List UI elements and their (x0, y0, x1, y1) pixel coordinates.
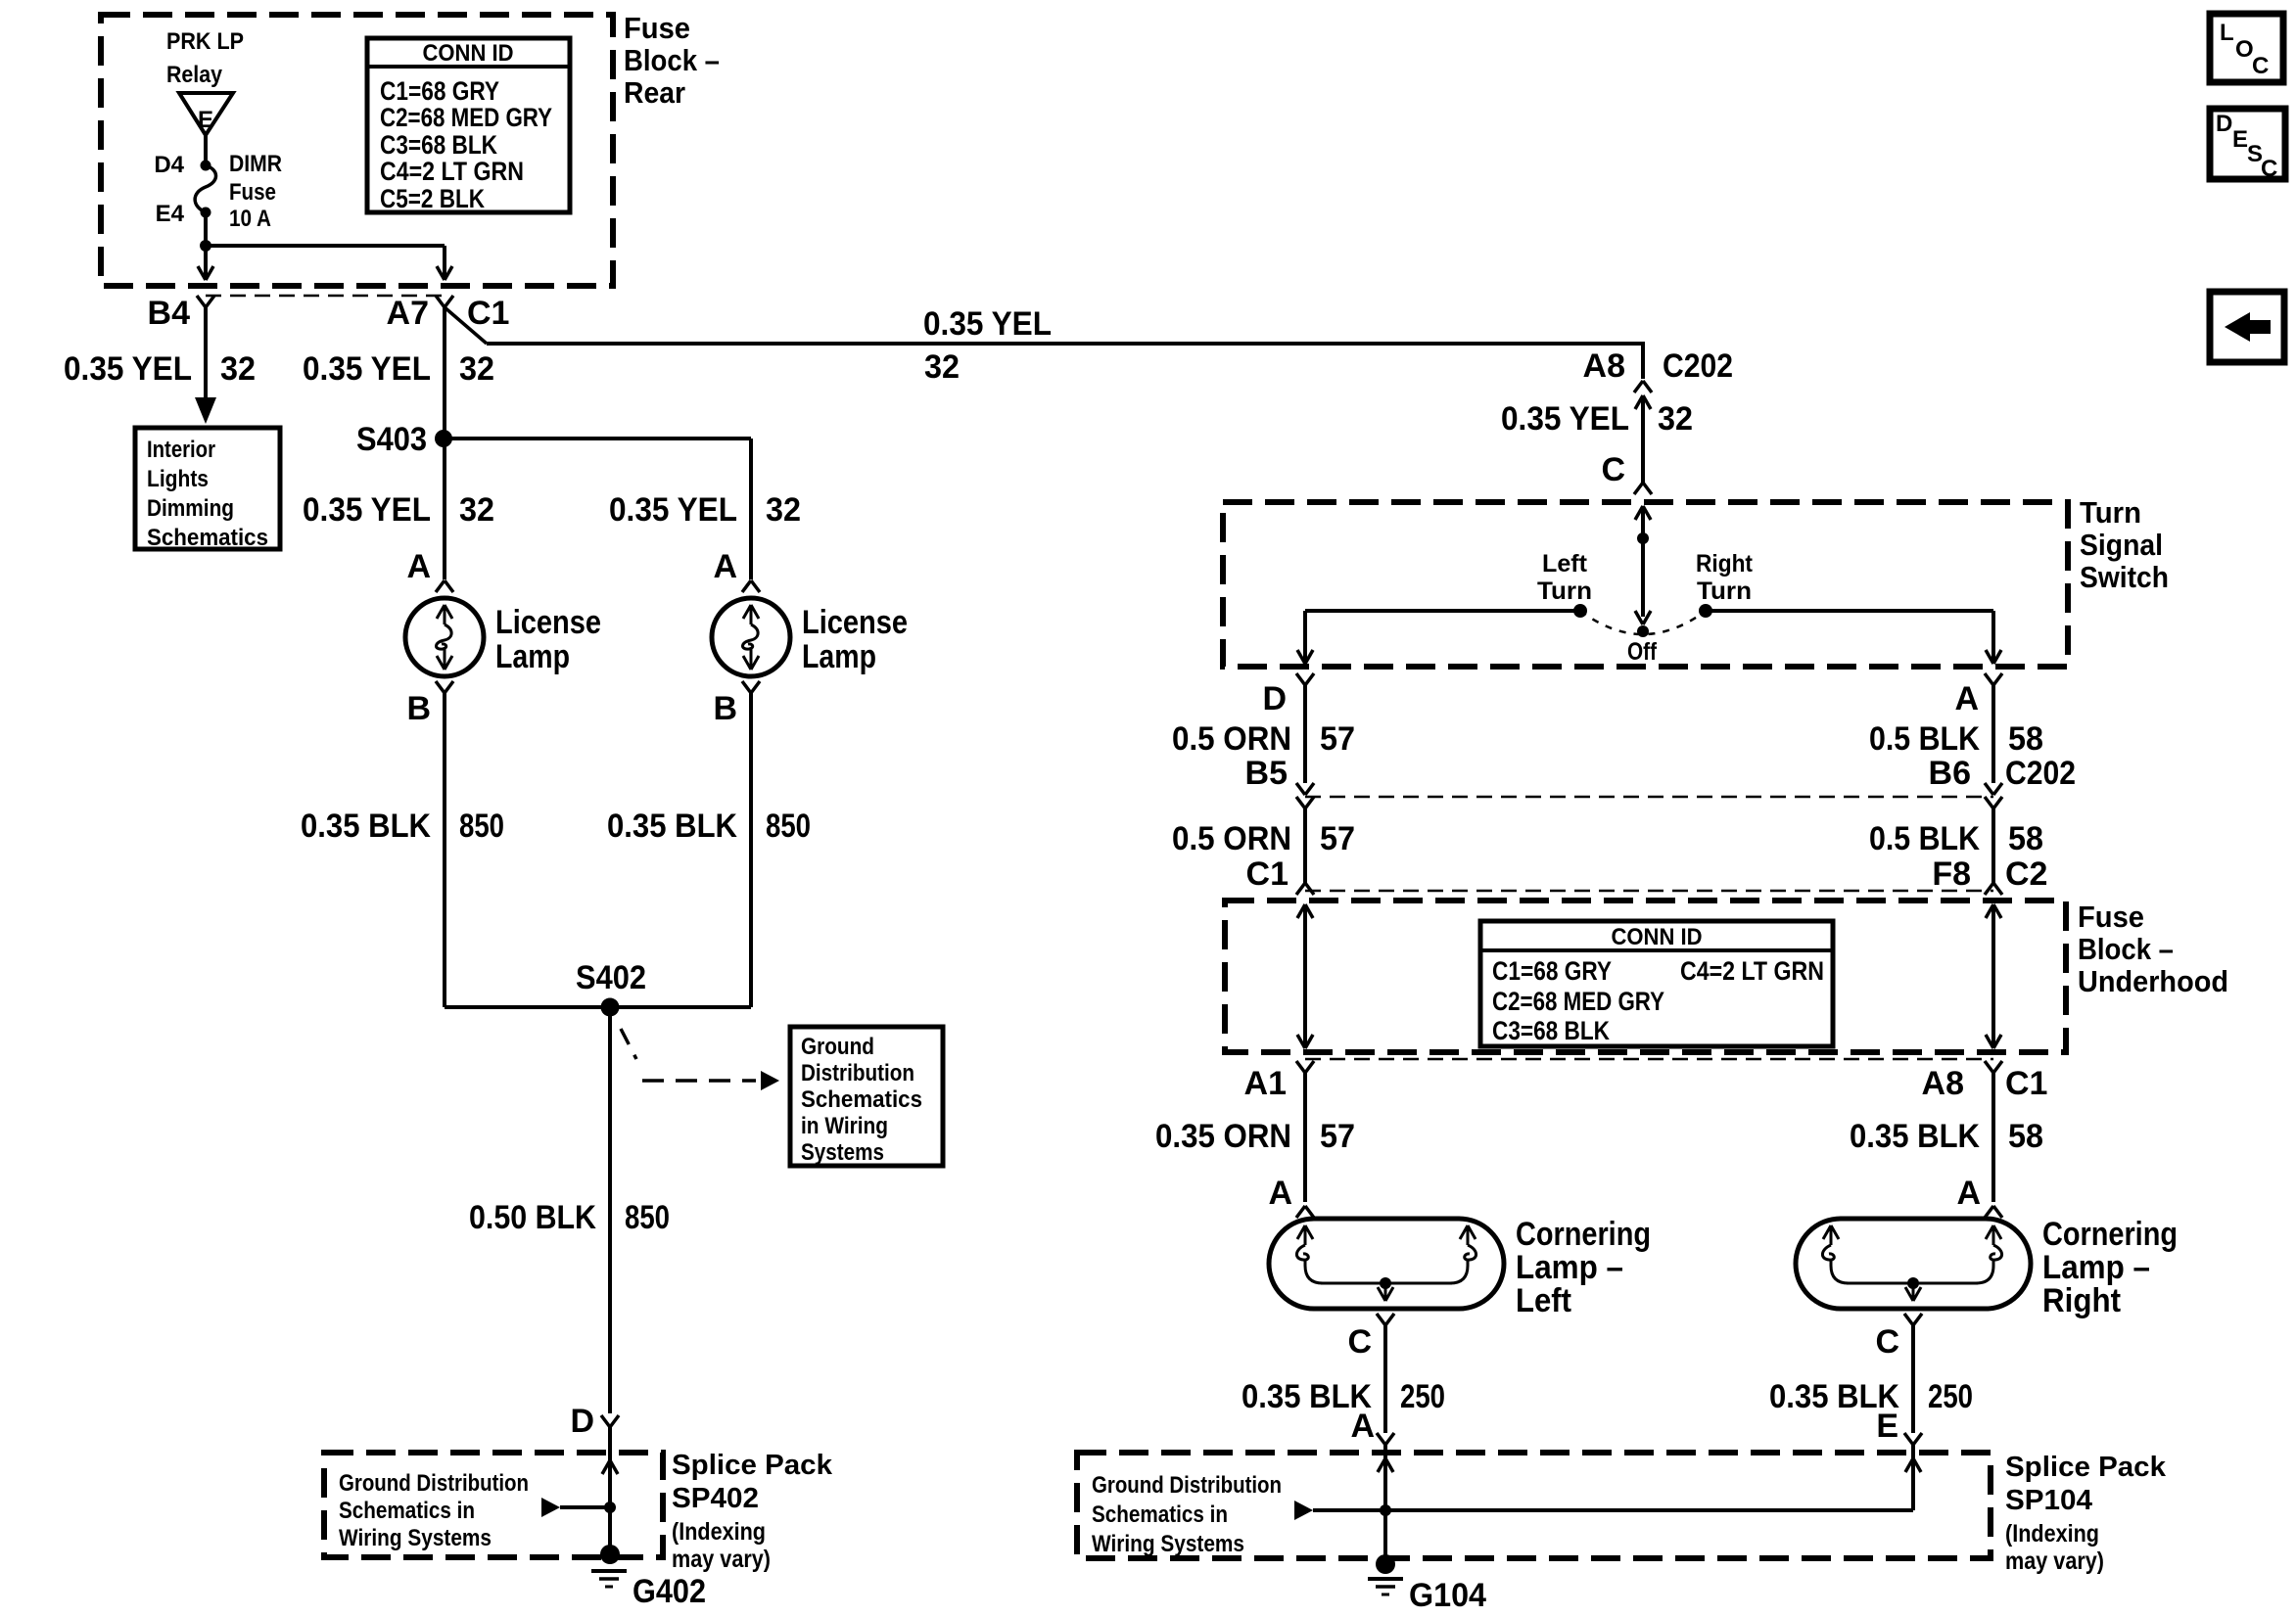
svg-text:57: 57 (1320, 820, 1355, 857)
ground G104 (1368, 1554, 1486, 1614)
connector C1 boundary (rear, dashed) (206, 295, 445, 298)
wire C202 to turn signal switch pin C (1635, 395, 1651, 483)
ground distribution text (SP104) (1092, 1472, 1282, 1557)
svg-text:E4: E4 (156, 201, 185, 227)
pin A8 / connector C1 (underhood out) (1922, 1061, 2048, 1102)
svg-text:0.35 BLK: 0.35 BLK (607, 808, 737, 845)
svg-text:G104: G104 (1409, 1577, 1486, 1614)
svg-text:C2=68 MED GRY: C2=68 MED GRY (380, 103, 552, 132)
ground G402 (591, 1545, 706, 1610)
pin C1 (underhood fuse block, left) (1246, 855, 1289, 893)
svg-text:B6: B6 (1929, 755, 1971, 792)
lamp Cornering Lamp - Left (1269, 1216, 1651, 1325)
svg-text:0.35 ORN: 0.35 ORN (1155, 1118, 1291, 1155)
svg-text:57: 57 (1320, 720, 1355, 758)
svg-text:Schematics: Schematics (801, 1086, 922, 1113)
svg-text:C202: C202 (2005, 755, 2076, 792)
svg-text:A1: A1 (1244, 1065, 1287, 1102)
interior lights dimming reference box (135, 428, 280, 551)
fuse DIMR 10 A (195, 151, 282, 232)
switch contact Left Turn (1537, 550, 1592, 618)
svg-text:D4: D4 (154, 152, 184, 178)
svg-text:250: 250 (1400, 1378, 1445, 1415)
LOC nav box (2210, 14, 2283, 82)
svg-text:0.35 YEL: 0.35 YEL (64, 350, 192, 388)
wire S402 to splice pack SP402 (601, 1007, 619, 1427)
svg-text:32: 32 (766, 491, 801, 529)
splice pack SP402 enclosure (324, 1453, 663, 1557)
svg-text:Left: Left (1542, 550, 1588, 577)
svg-text:Lamp: Lamp (495, 638, 570, 675)
connector C202 boundary (dashed) (1305, 796, 1993, 799)
label 0.5 ORN 57 (upper) (1172, 720, 1355, 758)
svg-text:CONN ID: CONN ID (1612, 924, 1703, 950)
svg-text:C1: C1 (2005, 1065, 2047, 1102)
label 0.35 YEL 32 (B4 wire) (64, 350, 256, 388)
svg-text:Interior: Interior (147, 437, 215, 463)
svg-text:E: E (1876, 1408, 1898, 1445)
fuse block underhood enclosure (1225, 901, 2066, 1052)
wire A7/C1 diagonal to top feed (445, 307, 487, 344)
wire S403 to left license lamp (443, 439, 446, 579)
turn signal switch enclosure (1223, 502, 2068, 667)
svg-text:C: C (1347, 1323, 1372, 1361)
svg-text:Wiring Systems: Wiring Systems (339, 1525, 492, 1551)
svg-text:F8: F8 (1932, 855, 1971, 893)
svg-text:(Indexing: (Indexing (672, 1518, 766, 1546)
svg-text:Switch: Switch (2080, 560, 2169, 594)
label 0.35 BLK 58 (1850, 1118, 2043, 1155)
ground distribution text (SP402) (339, 1470, 529, 1551)
label Splice Pack SP104 (2005, 1452, 2167, 1575)
wire B6 side to F8 (0.5 BLK 58) (1985, 797, 2002, 895)
svg-text:A8: A8 (1583, 347, 1625, 385)
svg-text:250: 250 (1928, 1378, 1973, 1415)
svg-text:C: C (2261, 156, 2277, 182)
pin C (left cornering lamp) (1347, 1323, 1372, 1361)
label 0.5 ORN 57 (lower) (1172, 820, 1355, 857)
svg-text:SP104: SP104 (2005, 1485, 2092, 1516)
pin D (SP402) (570, 1403, 594, 1440)
svg-text:D: D (2216, 111, 2232, 137)
wire A to B6 (0.5 BLK 58) (1985, 685, 2002, 795)
label Fuse Block - Underhood (2078, 900, 2228, 998)
pin A1 (1244, 1061, 1314, 1102)
wire A8 to right cornering lamp (0.35 BLK 58) (1985, 1073, 2002, 1218)
svg-text:G402: G402 (633, 1573, 706, 1610)
svg-text:0.5 ORN: 0.5 ORN (1172, 820, 1291, 857)
svg-text:0.35 YEL: 0.35 YEL (1501, 400, 1629, 438)
label 0.35 YEL 32 (top feed) (923, 305, 1052, 386)
svg-text:A7: A7 (387, 295, 429, 332)
svg-text:Turn: Turn (1537, 577, 1592, 605)
wire A1 to left cornering lamp (0.35 ORN 57) (1296, 1073, 1314, 1218)
pin C (right cornering lamp) (1875, 1323, 1899, 1361)
label Splice Pack SP402 (672, 1450, 833, 1573)
svg-text:C2=68 MED GRY: C2=68 MED GRY (1492, 987, 1664, 1016)
svg-text:0.50 BLK: 0.50 BLK (469, 1199, 596, 1236)
svg-text:C: C (2252, 53, 2269, 79)
svg-text:Ground Distribution: Ground Distribution (339, 1470, 529, 1497)
pin A (turn signal switch) (1954, 673, 2002, 717)
label 0.35 BLK 250 (left) (1242, 1378, 1445, 1415)
svg-text:C1: C1 (1246, 855, 1289, 893)
junction below fuse (200, 240, 211, 252)
svg-text:DIMR: DIMR (229, 151, 282, 177)
svg-text:Turn: Turn (2080, 495, 2141, 530)
wire left lamp B to S402 (443, 693, 446, 1007)
svg-text:32: 32 (220, 350, 256, 388)
svg-text:0.5 ORN: 0.5 ORN (1172, 720, 1291, 758)
svg-text:Cornering: Cornering (1516, 1216, 1651, 1253)
svg-text:B: B (713, 690, 737, 727)
svg-text:Wiring Systems: Wiring Systems (1092, 1531, 1244, 1557)
pin E (SP104) (1876, 1408, 1898, 1445)
svg-text:Relay: Relay (166, 62, 223, 88)
svg-text:License: License (802, 604, 908, 641)
lamp License Lamp (right) (712, 580, 908, 693)
svg-text:in Wiring: in Wiring (801, 1113, 888, 1139)
svg-text:(Indexing: (Indexing (2005, 1520, 2099, 1548)
svg-text:C4=2 LT GRN: C4=2 LT GRN (380, 157, 524, 186)
svg-text:License: License (495, 604, 601, 641)
wire right lamp C to SP104 pin E (0.35 BLK 250) (1904, 1325, 1922, 1445)
svg-text:Fuse: Fuse (2078, 900, 2144, 934)
svg-text:0.35 YEL: 0.35 YEL (609, 491, 737, 529)
svg-text:Rear: Rear (624, 75, 685, 110)
svg-text:0.35 YEL: 0.35 YEL (923, 305, 1052, 343)
node D4 (154, 152, 211, 178)
svg-text:Block –: Block – (2078, 932, 2174, 966)
svg-text:Underhood: Underhood (2078, 964, 2228, 998)
connector C1 boundary below underhood box (dashed) (1305, 1058, 1993, 1061)
wire relay E to D4 (204, 135, 208, 165)
svg-text:L: L (2220, 20, 2234, 46)
wire S403 to right license lamp branch (445, 439, 751, 579)
svg-text:0.35 BLK: 0.35 BLK (301, 808, 431, 845)
wire junction to B4 exit arrow (198, 246, 213, 280)
svg-text:Lights: Lights (147, 466, 209, 492)
svg-text:58: 58 (2008, 1118, 2043, 1155)
svg-text:C1: C1 (467, 295, 509, 332)
svg-text:A: A (713, 548, 737, 585)
pin A (right cornering lamp) (1956, 1175, 1981, 1212)
pin A (left license lamp) (406, 548, 431, 585)
svg-text:32: 32 (459, 350, 494, 388)
label 0.35 YEL 32 (A7 wire) (303, 350, 494, 388)
svg-text:850: 850 (766, 808, 811, 845)
svg-text:10 A: 10 A (229, 206, 271, 232)
svg-text:A: A (1956, 1175, 1981, 1212)
svg-text:0.5 BLK: 0.5 BLK (1869, 820, 1980, 857)
relay PRK LP (166, 28, 244, 135)
label 0.35 YEL 32 (right lamp wire) (609, 491, 801, 529)
label 0.35 YEL 32 (C202 wire) (1501, 400, 1693, 438)
svg-text:A: A (1954, 680, 1979, 717)
svg-text:C5=2 BLK: C5=2 BLK (380, 184, 485, 213)
svg-text:Turn: Turn (1697, 577, 1752, 605)
wire through fuse block underhood (left) (1297, 904, 1313, 1048)
svg-text:Left: Left (1516, 1282, 1571, 1319)
CONN ID table (underhood) (1480, 921, 1833, 1046)
back arrow nav box (2210, 292, 2284, 362)
label 0.35 BLK 850 (left) (301, 808, 504, 845)
ground distribution schematics reference box (S402) (790, 1027, 943, 1166)
svg-text:C1=68 GRY: C1=68 GRY (1492, 956, 1612, 986)
switch position Off (1627, 625, 1658, 666)
svg-text:Dimming: Dimming (147, 495, 234, 522)
svg-text:SP402: SP402 (672, 1483, 759, 1514)
switch throw arc (dashed) (1580, 611, 1706, 634)
svg-text:0.5 BLK: 0.5 BLK (1869, 720, 1980, 758)
pin A (right license lamp) (713, 548, 737, 585)
wire E into SP104 (up arrow) and splice bar (1313, 1445, 1921, 1510)
pin A (SP104) (1350, 1408, 1375, 1445)
wire top feed to A8 (0.35 YEL 32) (487, 342, 1643, 379)
wire into SP402 with up arrow (602, 1427, 618, 1554)
svg-text:Lamp: Lamp (802, 638, 876, 675)
svg-text:A: A (406, 548, 431, 585)
lamp License Lamp (left) (405, 580, 601, 693)
wire E4 down to junction (204, 212, 208, 246)
splice pack SP104 enclosure (1077, 1453, 1991, 1558)
label Fuse Block - Rear (624, 11, 720, 110)
label 0.35 ORN 57 (1155, 1118, 1355, 1155)
svg-text:Systems: Systems (801, 1139, 884, 1166)
svg-text:Schematics in: Schematics in (1092, 1501, 1228, 1528)
svg-text:S403: S403 (356, 421, 427, 458)
switch common wire with junction (1635, 506, 1651, 624)
pin B (left license lamp) (406, 690, 431, 727)
label 0.50 BLK 850 (469, 1199, 670, 1236)
svg-text:may vary): may vary) (672, 1546, 771, 1573)
svg-text:Block –: Block – (624, 43, 720, 77)
pin D (turn signal switch) (1262, 673, 1314, 717)
svg-text:0.35 YEL: 0.35 YEL (303, 491, 431, 529)
switch contact Right Turn (1696, 550, 1754, 618)
dashed reference pointer from S402 to ground distribution box (621, 1029, 779, 1090)
svg-text:A8: A8 (1922, 1065, 1964, 1102)
svg-text:Off: Off (1627, 638, 1658, 666)
svg-text:Lamp –: Lamp – (1516, 1249, 1623, 1286)
svg-text:D: D (1262, 680, 1287, 717)
svg-text:O: O (2235, 36, 2254, 63)
svg-text:E: E (2232, 126, 2248, 153)
label 0.35 YEL 32 (left lamp wire) (303, 491, 494, 529)
svg-text:Lamp –: Lamp – (2042, 1249, 2150, 1286)
svg-text:B5: B5 (1245, 755, 1288, 792)
svg-text:Schematics in: Schematics in (339, 1498, 475, 1524)
svg-text:Splice Pack: Splice Pack (2005, 1452, 2167, 1483)
wire left turn contact to pin D (1297, 611, 1580, 664)
wire through fuse block underhood (right) (1986, 904, 2001, 1048)
label Turn Signal Switch (2080, 495, 2169, 594)
svg-text:C: C (1875, 1323, 1899, 1361)
wire A7 down to S403 (443, 307, 446, 439)
wire B4 to interior lights reference (195, 307, 216, 424)
svg-text:S402: S402 (576, 959, 646, 996)
svg-text:850: 850 (625, 1199, 670, 1236)
pin C1 (467, 295, 509, 332)
svg-text:A: A (1350, 1408, 1375, 1445)
label 0.35 BLK 850 (right) (607, 808, 811, 845)
svg-text:Right: Right (2042, 1282, 2121, 1319)
svg-text:32: 32 (1658, 400, 1693, 438)
node E4 (156, 201, 211, 227)
lamp Cornering Lamp - Right (1796, 1216, 2178, 1325)
svg-text:Fuse: Fuse (229, 179, 276, 206)
node S403 (356, 421, 452, 458)
label 0.35 BLK 250 (right) (1769, 1378, 1973, 1415)
svg-text:0.35 YEL: 0.35 YEL (303, 350, 431, 388)
svg-text:D: D (570, 1403, 594, 1440)
svg-text:Ground Distribution: Ground Distribution (1092, 1472, 1282, 1499)
wire left lamp C to SP104 pin A (0.35 BLK 250) (1377, 1325, 1394, 1445)
svg-text:may vary): may vary) (2005, 1548, 2104, 1575)
svg-text:B4: B4 (148, 295, 191, 332)
svg-text:Ground: Ground (801, 1034, 874, 1060)
wire A into SP104 (up arrow) (1378, 1445, 1393, 1564)
svg-text:C: C (1601, 451, 1625, 488)
wire D to B5 (0.5 ORN 57) (1296, 685, 1314, 795)
pin A7 (387, 295, 453, 332)
pin B (right license lamp) (713, 690, 737, 727)
svg-text:Distribution: Distribution (801, 1060, 914, 1086)
label 0.5 BLK 58 (upper) (1869, 720, 2043, 758)
svg-text:Cornering: Cornering (2042, 1216, 2178, 1253)
node S402 (576, 959, 646, 1017)
svg-text:0.35 BLK: 0.35 BLK (1850, 1118, 1980, 1155)
svg-text:C4=2 LT GRN: C4=2 LT GRN (1680, 956, 1824, 986)
svg-text:C3=68 BLK: C3=68 BLK (380, 130, 497, 160)
svg-text:C1=68 GRY: C1=68 GRY (380, 76, 499, 106)
svg-text:C2: C2 (2005, 855, 2047, 893)
wire junction to A7 exit arrow (206, 246, 452, 280)
svg-text:58: 58 (2008, 720, 2043, 758)
connector C1/C2 boundary (dashed) (1305, 890, 1993, 893)
pin B4 (148, 295, 214, 332)
svg-text:E: E (198, 107, 213, 133)
svg-text:32: 32 (459, 491, 494, 529)
svg-text:C3=68 BLK: C3=68 BLK (1492, 1016, 1610, 1045)
pin F8 / connector C2 (1932, 855, 2047, 893)
svg-text:58: 58 (2008, 820, 2043, 857)
pin A (left cornering lamp) (1268, 1175, 1292, 1212)
fuse block rear enclosure (101, 15, 613, 286)
wire right lamp B to S402 (749, 693, 753, 1007)
svg-text:Right: Right (1696, 550, 1754, 577)
svg-text:Schematics: Schematics (147, 525, 268, 551)
svg-text:A: A (1268, 1175, 1292, 1212)
svg-text:850: 850 (459, 808, 504, 845)
label 0.5 BLK 58 (lower) (1869, 820, 2043, 857)
splice bar pointer (SP104) (1294, 1501, 1391, 1520)
wire S402 bus (445, 1005, 751, 1009)
pin B6 / connector C202 (1929, 755, 2076, 792)
pin B5 / connector C202 (1245, 755, 1288, 792)
svg-text:Splice Pack: Splice Pack (672, 1450, 833, 1481)
svg-text:PRK LP: PRK LP (166, 28, 244, 55)
CONN ID table (rear) (367, 38, 570, 213)
svg-text:Fuse: Fuse (624, 11, 690, 45)
wire right turn contact to pin A (1706, 611, 2001, 664)
svg-text:C202: C202 (1663, 347, 1733, 385)
svg-text:57: 57 (1320, 1118, 1355, 1155)
svg-text:B: B (406, 690, 431, 727)
splice bar pointer (SP402) (541, 1498, 616, 1517)
svg-text:32: 32 (924, 348, 960, 386)
svg-text:CONN ID: CONN ID (423, 40, 514, 67)
DESC nav box (2210, 109, 2285, 182)
pin C (turn signal switch) (1601, 451, 1652, 494)
svg-text:Signal: Signal (2080, 528, 2163, 562)
pin A8 / connector C202 (top) (1583, 347, 1733, 393)
wire B5 side to C1 (0.5 ORN 57) (1296, 797, 1314, 895)
